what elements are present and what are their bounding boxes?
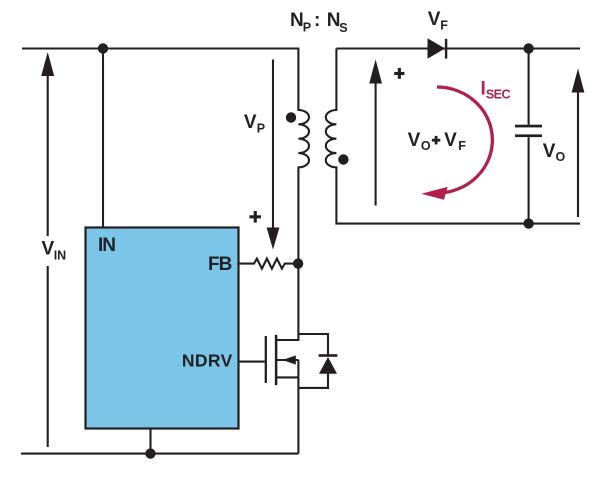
svg-text:V: V bbox=[408, 130, 421, 151]
svg-text:V: V bbox=[244, 112, 257, 133]
svg-text:V: V bbox=[444, 130, 457, 151]
svg-text:P: P bbox=[303, 20, 311, 34]
svg-text:V: V bbox=[543, 141, 556, 162]
svg-text:O: O bbox=[421, 139, 431, 153]
svg-text:SEC: SEC bbox=[486, 88, 511, 102]
svg-text:N: N bbox=[290, 10, 304, 31]
svg-text:FB: FB bbox=[208, 254, 232, 275]
svg-text::: : bbox=[314, 10, 320, 31]
svg-text:IN: IN bbox=[98, 235, 116, 256]
svg-text:V: V bbox=[428, 9, 441, 30]
svg-text:NDRV: NDRV bbox=[182, 351, 233, 371]
svg-text:S: S bbox=[339, 21, 347, 35]
svg-text:O: O bbox=[556, 150, 566, 164]
svg-text:IN: IN bbox=[54, 248, 66, 262]
svg-text:V: V bbox=[42, 238, 55, 259]
svg-text:P: P bbox=[257, 122, 265, 136]
svg-text:F: F bbox=[458, 139, 466, 153]
svg-text:F: F bbox=[440, 18, 448, 32]
